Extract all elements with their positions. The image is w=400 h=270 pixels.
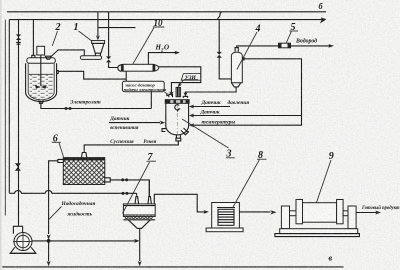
wire left vertical v1 (4, 20, 6, 216)
column 4 right nozzle (242, 58, 244, 60)
flame arrester 5 (279, 43, 291, 48)
wire feed line into hopper 1 (97, 12, 99, 36)
arrowhead down on drain above pump line (47, 234, 51, 239)
sensor line 2 with arrow (193, 115, 302, 117)
nutsche filter 7 right stub (148, 180, 151, 204)
wire filter 7 bottom drain (139, 228, 141, 261)
wire H2O out (148, 53, 176, 65)
pump body (14, 233, 32, 251)
heat exchanger 10 bottom stub (125, 71, 127, 81)
scan edge left (0, 0, 2, 270)
wire hydrogen line from column top (237, 46, 279, 48)
wire pump discharge (32, 240, 136, 242)
filter 6 top stub (82, 153, 87, 158)
arrowhead H2O (174, 51, 180, 55)
vessel 3 centerline (176, 104, 178, 134)
wire hydrogen out with arrow (291, 45, 331, 47)
mill 9 base (280, 229, 358, 234)
leader УЗИ to transducer (179, 80, 184, 85)
reactor 2 side nozzle (57, 71, 59, 74)
wire long horizontal y=193.3 to filter 7 with hops (9, 191, 136, 194)
wire mill 9 out product (356, 212, 377, 214)
wire stub line y=27.6 (98, 27, 135, 29)
wire suspension line vessel3 to filter 6 (84, 141, 178, 152)
valve dots electrolyte (65, 107, 68, 110)
dryer 8 body (212, 203, 240, 229)
vessel 3 body (166, 103, 189, 135)
wire filter6 left to drain vertical (49, 161, 58, 234)
vessel 3 side angled nozzle (181, 128, 189, 135)
sensor line pressure with arrow (193, 106, 230, 108)
reactor 2 inner wall (28, 63, 54, 100)
nutsche filter 7 left stub (135, 193, 139, 204)
arrowhead into vessel left stub (169, 91, 173, 96)
wire drain continue to bottom (48, 241, 50, 262)
leader надосадочная (49, 207, 62, 220)
column 4 bottom cone (231, 83, 240, 87)
leader 4 (237, 32, 257, 70)
vessel 3 flange (165, 100, 189, 104)
wire into HX left (109, 62, 118, 67)
dryer 8 inner stack (218, 209, 234, 225)
vessel 3 left top stub (169, 94, 173, 97)
mill 9 left flange (296, 200, 303, 224)
wire dosing box vertical from electrolyte line (150, 92, 152, 109)
wire reactor outlet electrolyte line (41, 101, 151, 109)
nutsche filter 7 funnel (128, 220, 150, 229)
leader 5 (286, 32, 291, 43)
pump base (10, 247, 36, 253)
heat exchanger 10 right cap (153, 64, 155, 72)
wire left vertical v2 to long bottom feed (8, 20, 10, 194)
wire filter 7 to dryer 8 (154, 194, 204, 212)
wire HX outlet to vessel 3 top (159, 67, 201, 93)
mill 9 right support (348, 206, 356, 229)
leader 8 (233, 160, 260, 209)
leader 9 (317, 160, 332, 203)
vessel 3 left small nozzle (162, 129, 166, 132)
arrow dosing box to vessel stub (164, 92, 168, 94)
vessel 3 bottom stub (176, 134, 181, 141)
vessel 3 G symbol (175, 105, 180, 112)
filter 6 right nozzle (105, 178, 110, 182)
heat exchanger 10 body (123, 64, 153, 71)
reactor 2 charge funnel (45, 56, 51, 59)
wire reactor side line to HX bottom (58, 71, 126, 79)
wire dryer 8 to mill 9 (239, 211, 270, 213)
transducer on vessel 3 (176, 87, 181, 96)
mill 9 left support (281, 206, 289, 229)
filter 6 left nozzle (58, 159, 63, 162)
wire top line 2 with right arrow (9, 19, 322, 21)
dryer 8 base (206, 228, 243, 232)
wire vertical v3 to pump (18, 20, 20, 226)
column 4 body (231, 52, 242, 83)
valve on HX feed (106, 56, 111, 62)
dosing pump box (122, 81, 164, 92)
heat exchanger 10 left cap (118, 65, 121, 72)
leader 7 (123, 162, 150, 214)
leader 6 (59, 143, 64, 157)
column 4 top stub (235, 48, 238, 52)
wire S-jog between line1 and line2 at x=220 (218, 12, 222, 20)
hopper 1 funnel (92, 43, 104, 55)
nutsche filter 7 plate band (123, 215, 155, 220)
valve dots on y=193.3 (122, 192, 125, 195)
valve on v3 lower (15, 163, 21, 170)
reactor 2 liquid (29, 74, 54, 99)
reactor 2 bottom outlet (39, 100, 43, 103)
wire vertical v4 to reactor lid (32, 20, 34, 56)
nutsche filter 7 body (123, 204, 155, 217)
conveyor under hopper (80, 56, 101, 60)
arrowhead line 2 (320, 17, 327, 23)
arrowhead into hopper (96, 35, 100, 40)
reactor 2 body outer jacket (26, 63, 57, 101)
wire filter6 right line to filter 7 (110, 180, 149, 196)
leader 10 underline (133, 27, 164, 64)
wire HX feed vertical x=108.6 (108, 12, 110, 57)
sensor line 3 long loop with arrow (193, 59, 302, 125)
filter 6 lid (63, 157, 105, 160)
arrowhead into vessel right stub (184, 92, 188, 97)
mill 9 right shaft (343, 211, 348, 216)
hopper 1 rim (92, 41, 105, 44)
wire vertical x=219.2 from line1 to column 4 (219, 20, 231, 79)
leader 1 (79, 31, 92, 41)
pump inlet box (13, 226, 22, 234)
valve dots on y=179.9 (121, 178, 124, 181)
reactor 2 agitator shaft (40, 55, 42, 86)
leader 2 (52, 31, 57, 46)
reactor 2 lid stub left (32, 55, 35, 58)
wire top line 1 (net б) (7, 11, 326, 13)
valve on v3 upper (16, 34, 21, 40)
reactor 2 impeller (35, 85, 47, 89)
leader 3 (182, 119, 229, 148)
junction dot pump line (47, 239, 51, 243)
valve on x=219.2 (217, 52, 222, 58)
sensor foam line with arrow (109, 122, 160, 124)
wire return line from column 4 into vessel 3 (186, 87, 237, 96)
mill 9 left shaft (290, 211, 297, 216)
wire charge line conveyor to reactor (51, 50, 84, 57)
vessel 3 right top stub (183, 96, 187, 98)
mill 9 right flange (337, 200, 344, 224)
wire bottom drain line (net в) (2, 266, 343, 268)
filter 6 hatched body (63, 160, 105, 185)
mill 9 drum (303, 203, 337, 223)
reactor 2 motor box (37, 46, 45, 55)
reactor 2 lid (27, 58, 56, 63)
УЗИ callout box (181, 74, 201, 81)
